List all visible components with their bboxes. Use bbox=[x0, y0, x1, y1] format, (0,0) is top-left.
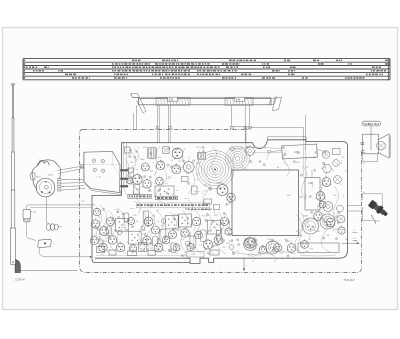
svg-text:R37: R37 bbox=[204, 185, 207, 187]
wire S38 leads bbox=[156, 105, 158, 143]
transistor TS422 bbox=[156, 161, 165, 170]
pads P1 P2 P3 bbox=[120, 169, 128, 171]
capacitor C85 bbox=[141, 226, 145, 230]
IF can S21 bbox=[198, 152, 206, 159]
capacitor C84 bbox=[117, 230, 121, 234]
svg-text:T1.24: T1.24 bbox=[196, 147, 201, 149]
coil lead pads bbox=[156, 126, 159, 128]
dice capacitor C67 bbox=[208, 220, 221, 234]
svg-text:C8: C8 bbox=[163, 243, 165, 245]
svg-text:R1: R1 bbox=[98, 217, 100, 219]
wire riser to C49 bbox=[303, 142, 305, 178]
svg-text:R11: R11 bbox=[190, 225, 193, 227]
dice capacitor C66 bbox=[179, 214, 192, 227]
transistor Q16 bbox=[107, 218, 115, 226]
resistor R46 bbox=[192, 186, 198, 194]
rod end piece bbox=[269, 97, 277, 106]
bottom row rect C bbox=[128, 251, 137, 256]
dial table row 4 entries bbox=[33, 70, 35, 72]
svg-text:C28: C28 bbox=[333, 195, 336, 197]
dice capacitor C63 bbox=[116, 218, 129, 231]
transistor Q17 bbox=[116, 243, 124, 251]
transistor TS433 bbox=[316, 192, 325, 201]
screw pad C bbox=[334, 176, 342, 184]
svg-text:C58: C58 bbox=[133, 215, 136, 217]
svg-text:SK2-6: SK2-6 bbox=[48, 175, 53, 177]
transistor TS438 bbox=[301, 241, 309, 249]
coil flower S45 bbox=[246, 147, 255, 156]
pad B bbox=[333, 160, 340, 167]
svg-text:C30: C30 bbox=[140, 159, 143, 161]
tuning gang cutout bbox=[232, 170, 299, 236]
svg-text:C24: C24 bbox=[128, 153, 131, 155]
capacitor C83 bbox=[229, 245, 234, 250]
transistor Q28 bbox=[203, 240, 212, 249]
svg-text:R3: R3 bbox=[117, 212, 119, 214]
transistor TS425 bbox=[143, 180, 151, 188]
svg-text:C18: C18 bbox=[280, 253, 283, 255]
transistor TS442 bbox=[319, 201, 326, 208]
transistor TS434 bbox=[245, 238, 255, 248]
capacitor C86 bbox=[161, 219, 165, 223]
resistor R63 bbox=[107, 227, 112, 236]
bottom row rect A bbox=[97, 247, 105, 253]
dice capacitor C65 bbox=[165, 215, 178, 229]
speaker label plate bbox=[362, 121, 381, 126]
svg-text:C26: C26 bbox=[341, 157, 344, 159]
cabinet outline left bbox=[80, 130, 87, 273]
lead segments bbox=[161, 177, 163, 180]
wire board to cabinet bottom bbox=[243, 258, 245, 269]
svg-text:C34: C34 bbox=[178, 161, 181, 163]
coil S40 on rod bbox=[225, 98, 253, 105]
battery terminal lug bbox=[81, 165, 84, 168]
transistor TS440 bbox=[326, 218, 335, 227]
component id row bbox=[137, 204, 139, 206]
bottom row rect D bbox=[148, 251, 156, 256]
resistor R24 bbox=[201, 230, 207, 242]
svg-text:C36: C36 bbox=[196, 163, 199, 165]
resistor R60 bbox=[217, 231, 222, 242]
svg-text:R19: R19 bbox=[288, 241, 291, 243]
pad D bbox=[337, 205, 344, 212]
resistor R64 bbox=[124, 213, 129, 222]
transistor TS420 bbox=[172, 148, 183, 159]
wire C49 leads bbox=[311, 170, 313, 177]
svg-text:C16: C16 bbox=[236, 251, 239, 253]
transistor TS439 bbox=[314, 212, 323, 221]
pot terminals bbox=[58, 179, 61, 181]
svg-text:52BR 8Ω: 52BR 8Ω bbox=[363, 122, 379, 126]
dial table row 3 entries bbox=[26, 67, 28, 69]
transistor Q10 bbox=[93, 208, 100, 215]
ferrite rod bbox=[139, 98, 272, 104]
svg-text:R15: R15 bbox=[202, 216, 205, 218]
dial table row 2 entries bbox=[112, 63, 114, 64]
battery box bbox=[84, 151, 120, 192]
svg-text:R29: R29 bbox=[214, 215, 217, 217]
transistor Q25 bbox=[181, 229, 189, 237]
svg-text:k: k bbox=[364, 223, 365, 225]
transistor Q15 bbox=[108, 236, 116, 244]
loudspeaker LS1 bbox=[363, 134, 379, 154]
svg-text:TS423: TS423 bbox=[216, 183, 223, 185]
svg-text:R18: R18 bbox=[142, 230, 145, 232]
svg-text:R48: R48 bbox=[287, 195, 290, 197]
svg-text:C10: C10 bbox=[181, 239, 184, 241]
capacitor C47 bbox=[282, 144, 318, 159]
wire board right arrow bbox=[342, 242, 359, 244]
capacitor C82 bbox=[185, 241, 189, 245]
svg-text:C24: C24 bbox=[305, 167, 308, 169]
telescopic antenna bbox=[11, 83, 15, 85]
coil S38 on rod bbox=[156, 98, 190, 105]
svg-text:7.45: 7.45 bbox=[81, 201, 85, 203]
svg-text:C22: C22 bbox=[334, 229, 337, 231]
capacitor C75 bbox=[298, 243, 339, 253]
cabinet outline bottom bbox=[86, 272, 357, 274]
cabinet outline right bbox=[357, 152, 362, 273]
svg-text:TSW 2327: TSW 2327 bbox=[344, 280, 356, 282]
svg-text:C2: C2 bbox=[108, 233, 110, 235]
svg-text:4d: 4d bbox=[277, 167, 279, 169]
pcb trace texture bbox=[130, 150, 138, 190]
wire C47 leads bbox=[271, 151, 282, 152]
wire board to earphone jack bbox=[348, 205, 362, 207]
wires pot to battery box bbox=[57, 166, 83, 171]
resistor R44 bbox=[125, 147, 131, 153]
dial table row 6 entries bbox=[72, 77, 74, 79]
oscillator coil flower bbox=[183, 162, 194, 173]
svg-text:R29: R29 bbox=[131, 172, 134, 174]
dial scale table bbox=[23, 58, 390, 60]
transistor Q31 bbox=[225, 228, 232, 235]
wire label to speaker bbox=[370, 126, 372, 150]
label strip 2 bbox=[156, 196, 178, 200]
transistor Q22 bbox=[154, 243, 163, 252]
transistor TS432 bbox=[322, 178, 331, 187]
capacitor C2B bbox=[186, 252, 204, 258]
resistor R22 bbox=[160, 229, 166, 242]
transistor Q12 bbox=[100, 227, 109, 236]
volume control R62/SK2 bbox=[32, 160, 61, 179]
bottom row rect E bbox=[210, 250, 219, 255]
svg-text:C14: C14 bbox=[217, 225, 220, 227]
transistor TS42C bbox=[303, 218, 319, 234]
choke coil S41 bbox=[46, 223, 50, 230]
svg-text:R56: R56 bbox=[296, 231, 299, 233]
resistor R61 bbox=[171, 243, 176, 253]
PCB top edge double line bbox=[268, 136, 307, 138]
bottom traces right bbox=[232, 252, 296, 255]
dice capacitor C64 bbox=[128, 231, 141, 244]
battery contacts bbox=[92, 159, 95, 162]
transistor TS42B bbox=[266, 241, 279, 254]
resistor R45 bbox=[182, 177, 189, 182]
transistor Q11 bbox=[91, 220, 99, 228]
transistor Q18 bbox=[128, 218, 135, 225]
wire connector to board bbox=[39, 248, 90, 257]
dial table row 1 entries bbox=[132, 60, 135, 62]
cabinet outline top bbox=[83, 129, 250, 131]
svg-text:R21: R21 bbox=[317, 231, 320, 233]
wire C61 to board bbox=[27, 205, 96, 210]
resistor R23 bbox=[190, 236, 196, 248]
wire rod lead into board bbox=[245, 143, 247, 149]
antenna base bracket bbox=[15, 260, 20, 273]
svg-text:C4: C4 bbox=[126, 242, 128, 244]
svg-text:C44: C44 bbox=[299, 197, 302, 199]
screw pad E bbox=[337, 215, 345, 223]
svg-text:R9: R9 bbox=[172, 217, 174, 219]
transistor Q13 bbox=[91, 237, 99, 245]
svg-text:R5: R5 bbox=[136, 221, 138, 223]
coil L4 bbox=[163, 147, 169, 154]
transistor TS430 bbox=[227, 193, 235, 201]
svg-text:b: b bbox=[334, 213, 335, 215]
transistor Q32 bbox=[173, 244, 180, 251]
transistor TS42A bbox=[244, 238, 257, 251]
capacitor C55 bbox=[214, 205, 220, 210]
svg-text:S3: S3 bbox=[210, 156, 212, 158]
svg-text:R35: R35 bbox=[186, 173, 189, 175]
transistor Q19 bbox=[144, 217, 153, 226]
trimmer C30 bbox=[134, 184, 140, 194]
IC block bbox=[155, 186, 174, 197]
svg-text:R13: R13 bbox=[208, 231, 211, 233]
svg-text:C20: C20 bbox=[305, 251, 308, 253]
wire C47 to coil bbox=[234, 148, 283, 149]
transistor TS421 bbox=[141, 163, 149, 171]
transistor Q24 bbox=[169, 231, 177, 239]
connector plate bbox=[38, 239, 52, 248]
transistor Q29 bbox=[214, 236, 223, 245]
svg-text:R44: R44 bbox=[296, 162, 299, 164]
svg-text:1.1: 1.1 bbox=[353, 230, 355, 232]
svg-text:R31: R31 bbox=[150, 171, 153, 173]
svg-text:R41: R41 bbox=[152, 216, 155, 218]
transistor TS436 bbox=[274, 244, 282, 252]
svg-text:S38: S38 bbox=[169, 97, 174, 101]
screw pad A bbox=[322, 151, 330, 159]
label box id row bbox=[137, 203, 210, 208]
transistor Q26 bbox=[192, 217, 200, 225]
svg-text:4.5: 4.5 bbox=[81, 167, 84, 169]
bracket support lines bbox=[133, 113, 135, 129]
trimmer C22 bbox=[129, 168, 134, 177]
svg-text:R15: R15 bbox=[226, 243, 229, 245]
svg-text:SK2-1: SK2-1 bbox=[36, 177, 41, 179]
svg-text:1.8: 1.8 bbox=[353, 238, 355, 240]
svg-text:R25: R25 bbox=[313, 157, 316, 159]
svg-text:h2: h2 bbox=[363, 163, 365, 165]
speaker wires bbox=[363, 154, 378, 162]
svg-text:C71: C71 bbox=[222, 247, 225, 249]
transistor Q27 bbox=[195, 231, 203, 239]
svg-text:p: p bbox=[246, 266, 247, 268]
svg-text:R33: R33 bbox=[168, 177, 171, 179]
transistor Q20 bbox=[152, 226, 160, 234]
transistor Q30 bbox=[221, 218, 229, 226]
svg-text:R17: R17 bbox=[258, 253, 261, 255]
svg-text:C6: C6 bbox=[145, 235, 147, 237]
svg-text:C31: C31 bbox=[186, 219, 189, 221]
IF can S20 bbox=[148, 148, 156, 158]
wire antenna to chassis bbox=[20, 270, 77, 272]
speaker terminals bbox=[361, 143, 364, 145]
svg-text:(+ 6): (+ 6) bbox=[97, 176, 102, 178]
dice capacitor C68 bbox=[138, 242, 146, 251]
wire pad risers bbox=[123, 143, 125, 186]
svg-text:4b: 4b bbox=[171, 160, 173, 162]
transistor TS437 bbox=[287, 244, 296, 253]
spiral coil S1 bbox=[212, 167, 218, 173]
svg-text:C4: C4 bbox=[308, 239, 310, 241]
wire S40 leads bbox=[231, 105, 246, 143]
dial table row 5 entries bbox=[65, 74, 68, 76]
coil flower S44 bbox=[323, 164, 331, 172]
svg-text:TS42B: TS42B bbox=[302, 216, 309, 218]
svg-text:C81: C81 bbox=[326, 235, 329, 237]
transistor TS42D bbox=[320, 214, 335, 229]
transistor Q34 bbox=[129, 245, 136, 252]
transistor TS427 bbox=[127, 178, 133, 184]
transistor TS423 bbox=[217, 185, 228, 196]
svg-text:R39: R39 bbox=[148, 191, 151, 193]
electrolytic C60 bbox=[323, 202, 333, 212]
svg-text:C12: C12 bbox=[199, 245, 202, 247]
resistor R47 bbox=[204, 199, 212, 204]
PCB outline bbox=[92, 143, 190, 263]
svg-text:J 3209 04: J 3209 04 bbox=[15, 279, 26, 281]
label strip 1 bbox=[128, 195, 151, 199]
transistor TS426 bbox=[156, 177, 164, 185]
svg-text:C32: C32 bbox=[158, 157, 161, 159]
svg-text:4e: 4e bbox=[246, 152, 248, 154]
svg-text:R23: R23 bbox=[345, 239, 348, 241]
svg-text:C40: C40 bbox=[136, 189, 139, 191]
transistor TS429 bbox=[172, 165, 181, 174]
wire pair lower bbox=[30, 206, 92, 208]
svg-text:S40: S40 bbox=[236, 97, 241, 101]
svg-text:R7: R7 bbox=[154, 223, 156, 225]
wire C61 to connector bbox=[27, 222, 36, 240]
transistor Q33 bbox=[187, 243, 194, 250]
svg-text:C42: C42 bbox=[323, 167, 326, 169]
transistor TS424 bbox=[133, 175, 143, 185]
trimmer R40 bbox=[333, 149, 341, 155]
capacitor C61 bbox=[23, 209, 30, 219]
resistor R62 bbox=[153, 237, 158, 246]
transistor Q23 bbox=[162, 236, 169, 243]
ferrite rod mounting bracket bbox=[131, 94, 140, 98]
transistor Q21 bbox=[143, 236, 151, 244]
bottom row rect B bbox=[109, 250, 116, 255]
svg-text:R27: R27 bbox=[345, 171, 348, 173]
transistor TS435 bbox=[259, 246, 267, 254]
jack tick marks bbox=[353, 232, 358, 234]
capacitor C49 bbox=[305, 178, 320, 211]
resistor R21 bbox=[143, 211, 149, 223]
transistor TS441 bbox=[338, 227, 345, 234]
svg-text:u2: u2 bbox=[363, 192, 365, 194]
jack bracket outline bbox=[362, 194, 382, 215]
earphone jack BU24 bbox=[368, 199, 390, 218]
wire pot to coil bbox=[45, 197, 47, 224]
transistor Q14 bbox=[99, 243, 107, 251]
svg-text:S2D: S2D bbox=[143, 147, 147, 149]
solder pads bbox=[150, 152, 152, 154]
spiral coil S2 bbox=[235, 156, 240, 161]
svg-text:BU24: BU24 bbox=[375, 221, 380, 223]
